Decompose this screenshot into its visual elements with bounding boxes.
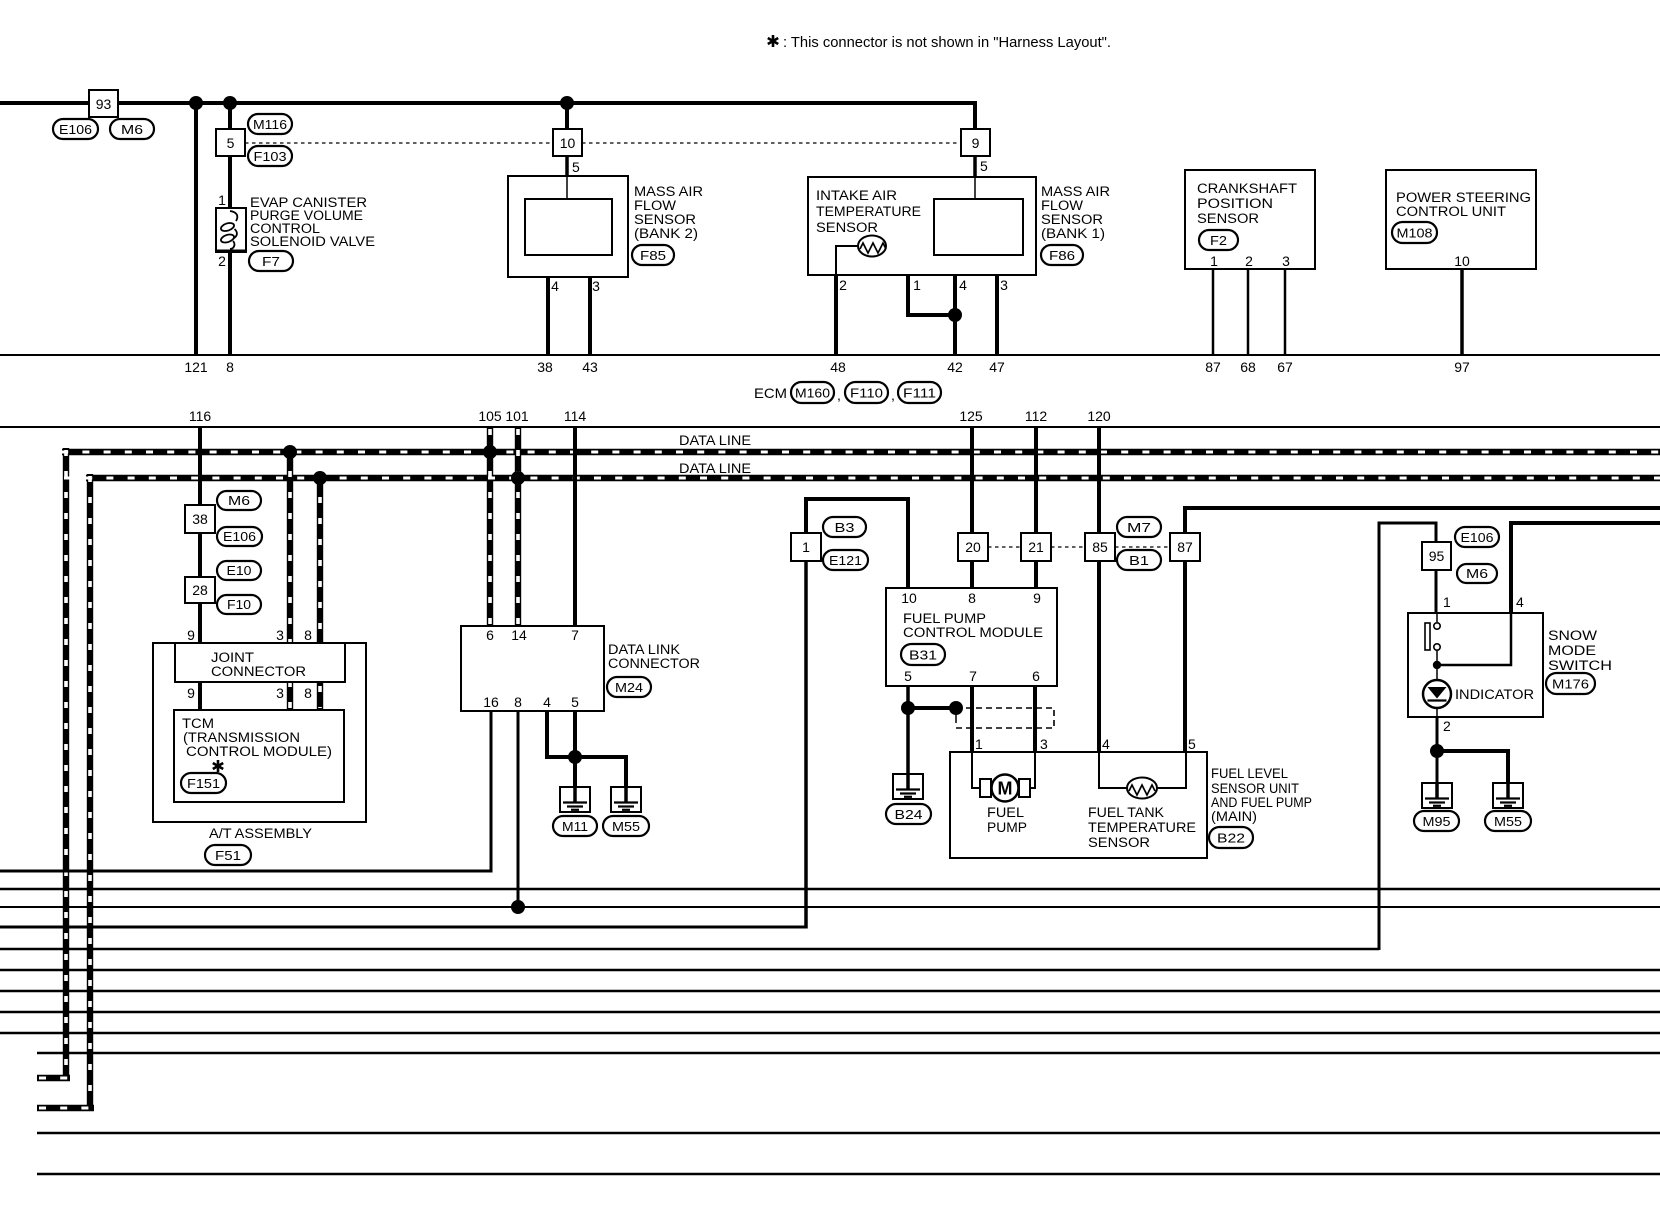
- label JOINT CONNECTOR: [211, 650, 306, 679]
- wire ECM pin 8 through EVAP solenoid: [228, 103, 232, 355]
- svg-text:,: ,: [891, 387, 895, 403]
- svg-text:DATA LINK: DATA LINK: [608, 642, 680, 657]
- label FUEL PUMP CONTROL MODULE: [903, 611, 1043, 640]
- IAT sensor / MAF bank1 F86 outer box: [808, 177, 1036, 275]
- wire pin 4 to switch: [1441, 613, 1511, 665]
- svg-text:16: 16: [483, 694, 499, 710]
- connector F110: [845, 382, 888, 403]
- junction switch/indicator: [1433, 661, 1441, 669]
- fuel pump motor M1: [972, 752, 982, 788]
- connector M6: [110, 119, 154, 139]
- svg-text:F86: F86: [1049, 248, 1075, 263]
- svg-text:93: 93: [96, 96, 112, 112]
- label MASS AIR FLOW SENSOR (BANK 2): [634, 184, 703, 241]
- connector M6 mid: [217, 491, 261, 510]
- svg-text:3: 3: [276, 627, 284, 643]
- svg-text:SENSOR: SENSOR: [816, 220, 878, 235]
- svg-text:CONNECTOR: CONNECTOR: [608, 656, 700, 671]
- junction snow switch pin 2: [1430, 744, 1444, 758]
- label FUEL TANK TEMPERATURE SENSOR: [1088, 805, 1196, 850]
- ECM bus line: [0, 354, 1660, 356]
- svg-text:B22: B22: [1217, 831, 1245, 846]
- wire power feed top line: [0, 103, 975, 129]
- svg-text:116: 116: [189, 408, 212, 424]
- connector box 93: [89, 90, 118, 117]
- connector E106 right: [1455, 527, 1499, 547]
- svg-text:E106: E106: [59, 122, 92, 137]
- connector F85: [632, 245, 674, 265]
- label INTAKE AIR TEMPERATURE SENSOR: [816, 188, 921, 235]
- svg-text:28: 28: [192, 582, 208, 598]
- ground M95: [1422, 783, 1452, 808]
- svg-text:20: 20: [965, 539, 981, 555]
- wire CKP sensor pin 3 to ECM 67: [1284, 269, 1287, 355]
- wire shielded to joint connector pin 8: [317, 474, 323, 710]
- svg-text:(BANK 2): (BANK 2): [634, 226, 698, 241]
- junction at 121 wire: [189, 96, 203, 110]
- wire CKP sensor pin 2 to ECM 68: [1247, 269, 1250, 355]
- svg-text:42: 42: [947, 359, 963, 375]
- svg-text:B31: B31: [909, 648, 937, 663]
- connector E106 mid: [217, 527, 262, 546]
- svg-text:M7: M7: [1127, 520, 1151, 535]
- svg-text:21: 21: [1028, 539, 1044, 555]
- fuel pump control module B31 box: [886, 588, 1057, 686]
- svg-text:3: 3: [592, 278, 600, 294]
- svg-text:4: 4: [959, 277, 967, 293]
- svg-text:SNOW: SNOW: [1548, 628, 1597, 643]
- connector M176: [1546, 673, 1595, 694]
- connector F51: [205, 845, 251, 865]
- wire IAT sensor pin 2 to ECM 48: [834, 275, 838, 355]
- svg-text:6: 6: [1032, 668, 1040, 684]
- svg-text:CRANKSHAFT: CRANKSHAFT: [1197, 181, 1297, 196]
- svg-text:B1: B1: [1129, 553, 1149, 568]
- connector box 9: [961, 129, 990, 156]
- svg-text:68: 68: [1240, 359, 1256, 375]
- connector F151: [181, 773, 226, 793]
- dashed connector link 5 to 10: [245, 142, 553, 144]
- wire IAT sensor pin 1 joining pin 4: [886, 246, 951, 315]
- svg-text:5: 5: [227, 135, 235, 151]
- svg-text:47: 47: [989, 359, 1005, 375]
- svg-text:2: 2: [1245, 253, 1253, 269]
- svg-text:CONTROL MODULE: CONTROL MODULE: [903, 625, 1043, 640]
- wire IAT to pin 2: [836, 246, 858, 275]
- svg-text:M6: M6: [1466, 566, 1488, 581]
- svg-text:9: 9: [187, 627, 195, 643]
- svg-text:ECM: ECM: [754, 385, 787, 401]
- indicator LED: [1423, 680, 1451, 708]
- svg-text:3: 3: [1000, 277, 1008, 293]
- svg-text:101: 101: [505, 408, 529, 424]
- svg-text:B3: B3: [835, 520, 855, 535]
- wire PS control unit pin 10 to ECM 97: [1460, 269, 1464, 355]
- svg-text:1: 1: [1210, 253, 1218, 269]
- svg-text:14: 14: [511, 627, 527, 643]
- svg-text:FUEL LEVEL: FUEL LEVEL: [1211, 766, 1288, 781]
- svg-text:FLOW: FLOW: [634, 198, 676, 213]
- bus line b10: [37, 1052, 1660, 1054]
- svg-text:E106: E106: [223, 529, 256, 544]
- svg-text:SOLENOID VALVE: SOLENOID VALVE: [250, 234, 375, 249]
- svg-text:85: 85: [1092, 539, 1108, 555]
- connector B3: [823, 517, 866, 537]
- wire snow mode switch pin 1 feed from left bus: [0, 948, 1379, 951]
- svg-text:E10: E10: [227, 563, 252, 578]
- wire connector 87 from right bus: [1185, 508, 1660, 533]
- wire snow mode switch pin 2 to grounds: [1436, 717, 1439, 783]
- svg-text:F10: F10: [227, 597, 251, 612]
- junction on data line 1 at joint connector pin 3 wire: [283, 445, 297, 459]
- power steering control unit M108 box: [1386, 170, 1536, 269]
- svg-text:125: 125: [959, 408, 983, 424]
- wire MAF bank1 pin 5: [973, 154, 977, 177]
- svg-text:A/T ASSEMBLY: A/T ASSEMBLY: [209, 826, 312, 841]
- A/T assembly outer box F51: [153, 643, 366, 822]
- connector box 95: [1422, 542, 1451, 570]
- dashed link 21-85: [1051, 546, 1085, 548]
- wire DATA LINE 2 (shielded): [86, 475, 1660, 481]
- svg-text:F151: F151: [187, 776, 220, 791]
- connector F86: [1041, 245, 1083, 265]
- connector M6 right: [1457, 564, 1497, 583]
- wire ECM 120 to connector 85: [1097, 427, 1101, 533]
- fuel tank temperature sensor thermistor: [1099, 752, 1127, 788]
- svg-text:DATA LINE: DATA LINE: [679, 432, 751, 448]
- asterisk star TCM: [213, 760, 223, 772]
- svg-text:M176: M176: [1552, 677, 1589, 692]
- svg-text:7: 7: [969, 668, 977, 684]
- wire DLC pin 5 to ground M11: [573, 711, 577, 787]
- ground M55 right: [1493, 783, 1523, 808]
- svg-text:CONNECTOR: CONNECTOR: [211, 664, 306, 679]
- connector F111: [898, 382, 941, 403]
- connector F10: [217, 595, 261, 614]
- svg-text:M11: M11: [562, 819, 588, 834]
- label EVAP CANISTER PURGE VOLUME CONTROL SOLENOID VALVE: [250, 195, 375, 249]
- junction shield: [949, 701, 963, 715]
- svg-text:F110: F110: [850, 386, 883, 401]
- svg-text:5: 5: [980, 158, 988, 174]
- svg-text:38: 38: [192, 511, 208, 527]
- svg-text:43: 43: [582, 359, 598, 375]
- wire into connector box 10: [565, 103, 569, 129]
- svg-text:FUEL TANK: FUEL TANK: [1088, 805, 1164, 820]
- connector F7: [249, 251, 293, 271]
- svg-text:1: 1: [1443, 594, 1451, 610]
- note asterisk star: [768, 35, 778, 47]
- svg-text:M116: M116: [253, 117, 287, 132]
- connector box 5: [216, 129, 245, 156]
- svg-text:3: 3: [1282, 253, 1290, 269]
- connector M116: [248, 114, 292, 134]
- svg-text:F111: F111: [903, 386, 936, 401]
- svg-text:87: 87: [1177, 539, 1193, 555]
- connector box 28: [185, 577, 215, 603]
- svg-text:4: 4: [1102, 736, 1110, 752]
- wire ECM 114 to DLC pin 7: [573, 427, 577, 626]
- svg-text:8: 8: [514, 694, 522, 710]
- svg-text:E106: E106: [1461, 530, 1494, 545]
- connector M108: [1392, 222, 1437, 243]
- svg-text:F51: F51: [215, 848, 241, 863]
- connector E106: [53, 119, 98, 139]
- junction pin1/pin4: [948, 308, 962, 322]
- svg-text:F103: F103: [254, 149, 287, 164]
- MAF bank2 inner box: [525, 199, 612, 255]
- svg-text:38: 38: [537, 359, 553, 375]
- svg-text:114: 114: [564, 408, 587, 424]
- junction on data line 1 at pin 105 wire: [483, 445, 497, 459]
- TCM box F151: [174, 710, 344, 802]
- svg-text:1: 1: [218, 192, 226, 208]
- svg-text:120: 120: [1087, 408, 1111, 424]
- svg-text:MASS AIR: MASS AIR: [634, 184, 703, 199]
- connector box 1 (B3): [791, 533, 821, 561]
- connector E121: [823, 550, 868, 570]
- svg-text:CONTROL MODULE): CONTROL MODULE): [186, 744, 332, 759]
- svg-text:MODE: MODE: [1548, 643, 1596, 658]
- wire MAF bank1 pin 4 to ECM 42: [953, 255, 957, 355]
- svg-text:INDICATOR: INDICATOR: [1455, 687, 1534, 702]
- wire FPCM pin 5 to ground B24: [906, 686, 910, 774]
- svg-text:E121: E121: [829, 553, 862, 568]
- bus line b2: [0, 888, 1660, 891]
- svg-text:9: 9: [187, 685, 195, 701]
- svg-text:8: 8: [304, 627, 312, 643]
- ground M11: [560, 787, 590, 812]
- junction DLC pins 4/5: [568, 750, 582, 764]
- label FUEL PUMP: [987, 805, 1027, 835]
- wire FPCM pin 6 to fuel pump pin 3: [1033, 686, 1037, 752]
- svg-text:TCM: TCM: [182, 716, 214, 731]
- svg-text:TEMPERATURE: TEMPERATURE: [1088, 820, 1196, 835]
- svg-text:9: 9: [1033, 590, 1041, 606]
- label SNOW MODE SWITCH: [1548, 628, 1612, 673]
- solenoid valve F7 coil: [216, 208, 246, 252]
- wire DLC pin 4 to pin 5: [547, 711, 575, 757]
- wire shielded stub 2: [37, 1105, 94, 1111]
- svg-text:5: 5: [1188, 736, 1196, 752]
- wire connector 20 to FPCM pin 8: [970, 561, 974, 588]
- wire DLC pin 8 down: [517, 711, 520, 907]
- svg-text:FLOW: FLOW: [1041, 198, 1083, 213]
- connector B22: [1209, 827, 1253, 848]
- MAF bank1 inner box: [934, 199, 1023, 255]
- wire connector 85 to fuel level sensor pin 4: [1097, 561, 1101, 752]
- svg-text:M55: M55: [1494, 814, 1522, 829]
- svg-text:4: 4: [1516, 594, 1524, 610]
- junction at 8 wire: [223, 96, 237, 110]
- dashed link 20-21: [988, 546, 1021, 548]
- wire MAF bank2 pin 5: [565, 154, 569, 177]
- bus line b8: [0, 1011, 1660, 1013]
- svg-text:3: 3: [276, 685, 284, 701]
- fuel level sensor unit B22 box: [950, 752, 1207, 858]
- svg-text:TEMPERATURE: TEMPERATURE: [816, 204, 921, 219]
- wire MAF bank1 pin 3 to ECM 47: [996, 255, 998, 275]
- svg-text:2: 2: [218, 253, 226, 269]
- svg-text:SENSOR: SENSOR: [1041, 212, 1103, 227]
- bus line b3: [0, 906, 1660, 908]
- IAT thermistor: [858, 236, 886, 257]
- connector F103: [248, 146, 292, 166]
- wire snow mode switch pin 4 to right bus: [1511, 523, 1660, 613]
- svg-text:8: 8: [304, 685, 312, 701]
- wire DATA LINE 1 (shielded): [62, 449, 1660, 455]
- svg-text:M24: M24: [615, 680, 643, 695]
- connector box 38: [185, 505, 215, 533]
- svg-text:F2: F2: [1210, 233, 1227, 248]
- svg-text:5: 5: [572, 159, 580, 175]
- svg-text:: This connector is not shown: : This connector is not shown in "Harnes…: [783, 34, 1111, 51]
- MAF bank2 sensor F85 outer box: [508, 176, 628, 277]
- wire to ground M55 right: [1437, 751, 1508, 783]
- svg-text:9: 9: [972, 135, 980, 151]
- svg-text:M55: M55: [612, 819, 640, 834]
- wire ECM 125 to connector 20: [970, 427, 974, 533]
- svg-text:67: 67: [1277, 359, 1293, 375]
- svg-text:JOINT: JOINT: [211, 650, 254, 665]
- wire ECM pin 121: [194, 103, 198, 355]
- wire MAF bank2 pin 3 to ECM 43: [603, 255, 605, 277]
- bus line b12: [37, 1173, 1660, 1175]
- svg-text:48: 48: [830, 359, 846, 375]
- svg-text:(MAIN): (MAIN): [1211, 809, 1257, 824]
- svg-text:7: 7: [571, 627, 579, 643]
- dashed shield outline: [956, 708, 1054, 728]
- svg-text:M6: M6: [228, 493, 250, 508]
- connector box 87: [1170, 533, 1200, 561]
- svg-text:121: 121: [184, 359, 208, 375]
- svg-text:112: 112: [1025, 408, 1048, 424]
- svg-text:M108: M108: [1397, 226, 1433, 241]
- connector E10: [217, 561, 261, 580]
- junction DLC pin 8 on bus: [511, 900, 525, 914]
- wire connector 87 to fuel level sensor pin 5: [1183, 561, 1187, 752]
- junction FPCM pin 5: [901, 701, 915, 715]
- svg-text:1: 1: [913, 277, 921, 293]
- svg-text:97: 97: [1454, 359, 1470, 375]
- ground M55: [611, 787, 641, 812]
- svg-text:DATA LINE: DATA LINE: [679, 460, 751, 476]
- label FUEL LEVEL SENSOR UNIT AND FUEL PUMP (MAIN): [1211, 766, 1312, 824]
- wire shielded to joint connector pin 3: [287, 448, 293, 710]
- svg-text:M160: M160: [795, 386, 830, 401]
- svg-text:(BANK 1): (BANK 1): [1041, 226, 1105, 241]
- label MASS AIR FLOW SENSOR (BANK 1): [1041, 184, 1110, 241]
- wire shielded vertical left 2: [87, 474, 93, 1108]
- svg-text:10: 10: [901, 590, 917, 606]
- svg-text:F7: F7: [262, 254, 280, 269]
- wire shielded vertical left 1: [63, 448, 69, 1078]
- svg-text:F85: F85: [640, 248, 666, 263]
- wire MAF bank2 pin 4 to ECM 38: [547, 255, 549, 277]
- connector box 20: [958, 533, 988, 561]
- white dashes of shielded wires: [39, 429, 1660, 1108]
- wire shield bond: [908, 706, 956, 710]
- connector F2: [1199, 230, 1238, 250]
- junction at box 10 wire: [560, 96, 574, 110]
- svg-text:2: 2: [839, 277, 847, 293]
- svg-text:(TRANSMISSION: (TRANSMISSION: [183, 730, 300, 745]
- bus line b11: [37, 1132, 1660, 1134]
- wire FPCM pin 7 to fuel pump pin 1: [970, 686, 974, 752]
- svg-text:8: 8: [968, 590, 976, 606]
- connector M160: [791, 382, 834, 403]
- wire connector 21 to FPCM pin 9: [1034, 561, 1038, 588]
- wire CKP sensor pin 1 to ECM 87: [1212, 269, 1215, 355]
- svg-text:87: 87: [1205, 359, 1221, 375]
- bus line b7: [0, 990, 1660, 992]
- svg-text:AND FUEL PUMP: AND FUEL PUMP: [1211, 795, 1312, 810]
- connector box 21: [1021, 533, 1051, 561]
- svg-text:6: 6: [486, 627, 494, 643]
- crankshaft position sensor F2 box: [1185, 170, 1315, 269]
- svg-text:PUMP: PUMP: [987, 820, 1027, 835]
- svg-text:FUEL PUMP: FUEL PUMP: [903, 611, 986, 626]
- svg-text:CONTROL UNIT: CONTROL UNIT: [1396, 204, 1506, 219]
- svg-text:5: 5: [904, 668, 912, 684]
- bus line b9: [0, 1032, 1660, 1034]
- connector box 10: [553, 129, 582, 156]
- joint connector label box: [175, 643, 345, 682]
- junction on data line 2 at pin 101 wire: [511, 471, 525, 485]
- snow mode switch M176 box: [1408, 613, 1543, 717]
- svg-text:SENSOR UNIT: SENSOR UNIT: [1211, 781, 1299, 796]
- svg-text:1: 1: [802, 539, 810, 555]
- connector B1: [1117, 550, 1161, 570]
- label DATA LINK CONNECTOR: [608, 642, 700, 671]
- data link connector M24 box: [461, 626, 604, 711]
- svg-text:INTAKE AIR: INTAKE AIR: [816, 188, 897, 203]
- svg-text:M95: M95: [1423, 814, 1451, 829]
- ECM lower bus line: [0, 426, 1660, 428]
- switch contacts: [1436, 613, 1438, 622]
- wire ECM 116 to joint connector pin 9: [198, 427, 202, 710]
- wire B3 connector 1 down to left bus: [804, 561, 808, 929]
- svg-text:MASS AIR: MASS AIR: [1041, 184, 1110, 199]
- svg-text:POWER STEERING: POWER STEERING: [1396, 190, 1531, 205]
- svg-text:B24: B24: [895, 807, 923, 822]
- svg-text:M6: M6: [121, 122, 143, 137]
- connector M24: [607, 677, 651, 697]
- wire to ground M55: [575, 757, 626, 787]
- wire DLC pin 16 to left: [0, 711, 491, 871]
- ground B24: [893, 774, 923, 799]
- svg-text:M: M: [998, 779, 1013, 799]
- svg-text:2: 2: [1443, 718, 1451, 734]
- wire shielded to DLC pin 6: [487, 427, 493, 626]
- bus line b6: [0, 969, 1660, 971]
- svg-text:,: ,: [837, 387, 841, 403]
- wire B3 connector 1 to FPCM pin 10: [806, 499, 908, 588]
- svg-text:3: 3: [1040, 736, 1048, 752]
- svg-text:105: 105: [478, 408, 502, 424]
- svg-text:SENSOR: SENSOR: [1197, 211, 1259, 226]
- wire ECM 112 to connector 21: [1034, 427, 1038, 533]
- svg-text:FUEL: FUEL: [987, 805, 1025, 820]
- label TCM: [182, 716, 332, 759]
- svg-text:4: 4: [543, 694, 551, 710]
- svg-text:8: 8: [226, 359, 234, 375]
- shield stub: [955, 712, 957, 723]
- dashed link 85-87: [1115, 546, 1170, 548]
- junction on data line 2 at joint connector pin 8 wire: [313, 471, 327, 485]
- connector box 85: [1085, 533, 1115, 561]
- wire shielded stub 1: [37, 1075, 70, 1081]
